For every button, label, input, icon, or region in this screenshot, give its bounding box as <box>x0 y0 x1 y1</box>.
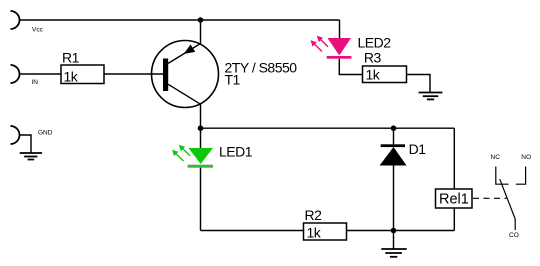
connector IN <box>11 65 39 86</box>
wire to ground stem <box>393 231 395 249</box>
wire LED2 to R3 <box>339 59 362 75</box>
contact arm CO <box>500 179 519 239</box>
wire Rel1 bottom to rail <box>453 208 455 231</box>
wire rail to D1 <box>393 128 395 144</box>
svg-text:Vcc: Vcc <box>32 27 44 34</box>
svg-text:R2: R2 <box>305 207 323 223</box>
node junction D1 top <box>391 125 397 131</box>
svg-text:GND: GND <box>38 130 53 137</box>
wire rail to Rel1 top <box>453 128 455 189</box>
LED1 <box>172 144 253 168</box>
svg-text:D1: D1 <box>409 141 427 157</box>
wire D1 to bottom rail <box>393 166 395 231</box>
svg-text:IN: IN <box>32 79 39 86</box>
svg-text:1k: 1k <box>307 225 322 241</box>
wire Vcc rail <box>20 19 340 21</box>
svg-text:NC: NC <box>491 154 501 161</box>
wire emitter to Vcc junction <box>200 20 202 44</box>
ground (bottom) <box>381 249 406 257</box>
wire IN to R1 <box>20 73 62 75</box>
svg-text:CO: CO <box>509 232 519 239</box>
svg-text:R3: R3 <box>364 50 382 66</box>
relay coil Rel1 <box>436 189 473 208</box>
wire rail to LED1 <box>200 128 202 148</box>
wire LED2 drop <box>339 20 341 39</box>
resistor R1 <box>61 50 104 85</box>
node junction D1 bottom <box>391 228 397 234</box>
resistor R2 <box>304 207 347 241</box>
svg-text:NO: NO <box>521 154 531 161</box>
diode D1 <box>380 141 427 166</box>
wire GND to ground <box>20 135 32 153</box>
ground (GND connector) <box>20 153 42 160</box>
svg-text:1k: 1k <box>64 69 79 85</box>
wire collector rail <box>201 127 455 129</box>
svg-text:1k: 1k <box>366 67 381 83</box>
wire LED1 to bottom rail <box>200 168 202 231</box>
contact NC pin <box>491 154 509 184</box>
svg-text:LED1: LED1 <box>219 144 253 160</box>
resistor R3 <box>363 50 407 83</box>
connector Vcc <box>11 11 44 34</box>
node junction collector rail <box>198 125 204 131</box>
wire collector down <box>200 104 202 128</box>
wire bottom rail <box>201 230 455 232</box>
svg-text:T1: T1 <box>225 72 241 88</box>
ground (R3) <box>419 93 443 100</box>
node junction Vcc/emitter <box>198 17 204 23</box>
svg-text:Rel1: Rel1 <box>439 192 469 208</box>
wire R1 to base <box>104 73 163 75</box>
transistor T1 <box>152 41 298 108</box>
contact NO pin <box>516 154 531 184</box>
dashed link Rel1 to contact <box>473 197 507 199</box>
LED2 <box>311 35 392 59</box>
connector GND <box>11 126 53 144</box>
svg-text:LED2: LED2 <box>358 35 392 51</box>
wire R3 to ground <box>407 75 431 93</box>
svg-text:R1: R1 <box>62 50 80 66</box>
